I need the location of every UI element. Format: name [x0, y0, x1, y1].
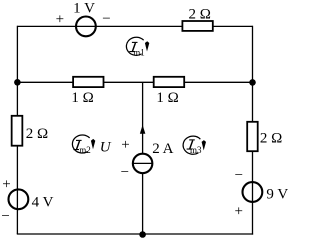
- svg-text:2 Ω: 2 Ω: [189, 6, 211, 22]
- svg-text:4 V: 4 V: [32, 194, 54, 210]
- svg-text:2 A: 2 A: [152, 141, 173, 157]
- wire bottom: [17, 233, 253, 235]
- svg-text:m3: m3: [190, 145, 202, 155]
- mesh current Im1: [126, 37, 149, 57]
- wire top: [17, 25, 252, 27]
- svg-text:U: U: [100, 139, 112, 155]
- svg-text:9 V: 9 V: [266, 187, 288, 203]
- voltage source V1 1V circle: [76, 17, 96, 37]
- svg-text:+: +: [2, 177, 10, 193]
- current source bar: [133, 162, 153, 164]
- wire middle horizontal: [17, 81, 252, 83]
- svg-text:+: +: [121, 137, 129, 153]
- current source arrow: [140, 125, 146, 134]
- svg-text:2 Ω: 2 Ω: [260, 130, 282, 146]
- svg-text:−: −: [121, 164, 129, 180]
- wire right: [252, 26, 254, 235]
- wire middle vertical: [142, 82, 144, 234]
- resistor left 2ohm: [12, 116, 23, 146]
- node dot left: [14, 79, 21, 86]
- svg-text:+: +: [234, 204, 242, 220]
- svg-text:m2: m2: [79, 145, 91, 155]
- current source 2A circle: [133, 154, 153, 174]
- wire left: [16, 26, 18, 234]
- resistor top 2ohm: [182, 21, 212, 31]
- voltage source 4V circle: [9, 189, 29, 209]
- svg-text:1 Ω: 1 Ω: [71, 90, 93, 106]
- svg-text:2 Ω: 2 Ω: [26, 126, 48, 142]
- svg-text:m1: m1: [133, 47, 145, 57]
- svg-text:−: −: [235, 168, 243, 184]
- node dot right: [249, 79, 256, 86]
- svg-text:1 Ω: 1 Ω: [156, 90, 178, 106]
- resistor right 2ohm: [247, 122, 258, 151]
- svg-text:−: −: [1, 208, 9, 224]
- node dot bottom: [139, 231, 146, 238]
- voltage source 9V circle: [243, 182, 263, 202]
- resistor mid-right 1ohm: [154, 77, 185, 87]
- mesh current Im2: [72, 135, 95, 155]
- svg-text:−: −: [102, 11, 110, 27]
- svg-text:1 V: 1 V: [73, 0, 95, 16]
- mesh current Im3: [183, 136, 206, 155]
- resistor mid-left 1ohm: [73, 77, 103, 87]
- svg-text:+: +: [56, 12, 64, 28]
